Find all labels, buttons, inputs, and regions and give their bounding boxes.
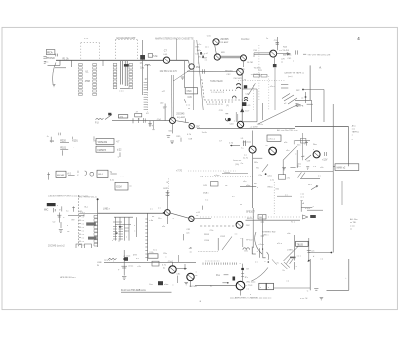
label tape head — [210, 80, 223, 83]
wire twin drop to Q9 b — [172, 75, 174, 117]
IC U2 pin field — [113, 61, 132, 92]
svg-text:TAPE/AM: TAPE/AM — [97, 141, 107, 144]
note dashed header right — [303, 54, 331, 56]
svg-text:. . .: . . . — [121, 176, 124, 178]
wire stubs y84 y88 — [281, 84, 288, 88]
node under Q12 — [184, 229, 193, 254]
svg-text:K101: K101 — [72, 140, 78, 142]
svg-text:x7x x.x: x7x x.x — [268, 139, 276, 141]
label Q5 IF — [241, 61, 253, 71]
IC U1 pin field — [79, 60, 103, 95]
svg-text:x x x x x x x x x x: x x x x x x x x x x — [205, 260, 219, 262]
svg-text:x: x — [352, 139, 353, 141]
transistor Q12 — [189, 216, 194, 221]
svg-text:(7G): (7G) — [235, 164, 239, 166]
label C7b — [219, 141, 223, 143]
node cluster above comb — [150, 208, 165, 220]
wire ground return curve — [53, 63, 56, 85]
svg-text:x: x — [134, 231, 135, 233]
wire vertical x262 low — [261, 215, 264, 250]
label Q4 — [202, 52, 226, 59]
svg-text:Lxxxx xx: Lxxxx xx — [233, 160, 242, 162]
oscillator coil T1 box — [185, 88, 197, 94]
wire x302 column — [298, 133, 307, 166]
svg-text:xx x: xx x — [308, 184, 312, 186]
svg-text:T6 455: T6 455 — [282, 50, 289, 52]
coil T9 box — [265, 135, 281, 147]
switch S3 wiring — [282, 89, 324, 122]
svg-text:+12V: +12V — [322, 159, 328, 161]
transistor Q7 — [237, 69, 244, 76]
resistor bias vertical — [241, 271, 248, 281]
label C9x pair — [163, 253, 168, 258]
node MIC jack — [47, 203, 59, 207]
note L row — [233, 160, 242, 166]
wire stub down x153 — [152, 121, 154, 130]
node left marks — [200, 176, 204, 178]
node mid labels — [128, 261, 167, 268]
svg-text:Rx: Rx — [198, 50, 200, 52]
node C45 cluster — [203, 182, 228, 188]
wire Q3 to Q4 — [215, 45, 217, 55]
note footnotes — [350, 218, 358, 231]
connector comb J4 — [145, 213, 155, 261]
wire twin-lead arrow 1 — [221, 56, 240, 58]
wire x283 — [282, 160, 284, 175]
ground Q9 — [170, 141, 174, 144]
svg-text:x x: x x — [82, 231, 84, 233]
wire diag reg — [284, 247, 301, 262]
svg-text:R/P: R/P — [296, 90, 300, 92]
transistor Q19 — [187, 273, 194, 280]
diode D2 — [241, 109, 251, 113]
svg-text:x2x: x2x — [162, 226, 165, 228]
svg-text:2SA x: 2SA x — [203, 192, 209, 195]
bias chain Q11 — [163, 188, 169, 210]
resistor R2k7 — [229, 143, 240, 147]
wire twin drop to Q9 a — [171, 75, 173, 117]
node line-in 2 — [97, 258, 116, 267]
svg-text:HF-1: HF-1 — [98, 174, 104, 176]
wire gnd left leg — [307, 259, 310, 290]
wire x124 riser — [123, 250, 125, 276]
capacitor C53 — [148, 121, 153, 128]
label MIC2 — [44, 209, 49, 211]
svg-text:A.: A. — [319, 66, 322, 70]
svg-text:CW: CW — [307, 160, 311, 162]
svg-text:R101: R101 — [60, 147, 66, 149]
svg-text:x x: x x — [82, 224, 84, 226]
svg-text:xx x: xx x — [205, 47, 209, 49]
svg-text:AM OSC: AM OSC — [283, 53, 292, 56]
svg-text:HPB RD NJ/xx x: HPB RD NJ/xx x — [60, 277, 77, 279]
svg-text:1x: 1x — [266, 38, 268, 40]
svg-text:R220: R220 — [60, 140, 66, 142]
svg-text:ECM: ECM — [116, 186, 121, 188]
label Q10 — [196, 127, 201, 129]
svg-text:1 2 3 4 5 6 7 8: 1 2 3 4 5 6 7 8 — [211, 92, 225, 94]
svg-text:REC/PB: REC/PB — [295, 106, 303, 108]
svg-text:JPx: JPx — [245, 277, 248, 279]
label Q15 — [241, 141, 252, 164]
node marks right of spine — [244, 80, 251, 96]
ceramic filter SFE — [232, 196, 256, 250]
wire rail y173 — [222, 172, 248, 174]
wire twin-lead arrow 2 — [253, 50, 271, 57]
label line x — [103, 209, 111, 211]
svg-text:+B: +B — [189, 247, 192, 250]
svg-text:xxx: xxx — [352, 129, 355, 131]
svg-text:dTB: dTB — [133, 255, 137, 257]
capacitor C1 — [56, 54, 58, 57]
capacitor C output — [307, 238, 311, 262]
label under T1 — [184, 97, 192, 103]
note mic header — [0, 0, 1, 1]
transistor Q8 — [237, 121, 243, 127]
wire Q11 to Q12 — [171, 213, 189, 220]
capacitor C7 label — [163, 51, 168, 56]
label read — [240, 185, 274, 189]
label x1x — [243, 181, 257, 185]
varicap cluster — [225, 118, 235, 123]
node input jack ticks — [43, 56, 46, 63]
label 150 — [275, 188, 292, 196]
node under Q10 — [187, 134, 193, 140]
wire Q13 right rail — [246, 218, 301, 220]
svg-text:EQ AMP: EQ AMP — [177, 116, 186, 119]
svg-text:C/R: C/R — [186, 229, 190, 231]
label TP107 — [240, 238, 254, 242]
label Q18 — [163, 261, 174, 269]
svg-text:SFE10.7: SFE10.7 — [246, 211, 256, 213]
svg-text:x: x — [112, 240, 113, 242]
svg-text:x: x — [165, 256, 166, 258]
row y282 marks — [149, 281, 174, 286]
svg-text:TRIM: TRIM — [202, 57, 207, 59]
svg-text:OSC: OSC — [187, 91, 192, 93]
svg-text:x x: x x — [82, 238, 84, 240]
transistor Q16 — [269, 147, 277, 155]
label Q17 — [246, 281, 256, 290]
resistor R1 label — [63, 59, 70, 61]
svg-text:x xx x: x xx x — [305, 208, 310, 210]
node Tk cluster — [93, 136, 96, 142]
wire dotted tape line — [238, 80, 285, 82]
note transistor type — [48, 245, 65, 247]
label C31 — [219, 110, 228, 114]
node line-in squiggle — [95, 118, 103, 124]
svg-text:C1x2: C1x2 — [168, 261, 174, 263]
coil L5 — [241, 138, 246, 146]
wire x294 — [287, 233, 294, 261]
resistor R90 — [148, 252, 158, 258]
node between Q18 Q19 — [176, 274, 181, 283]
wire output bus left — [195, 285, 236, 287]
wire below Q17 — [241, 290, 253, 296]
svg-text:Lxxxxx: Lxxxxx — [224, 172, 230, 174]
node gnd junction — [307, 289, 319, 293]
node aux input row — [47, 170, 124, 181]
wire Q15 emitter — [253, 158, 263, 164]
svg-text:x: x — [134, 225, 135, 227]
transistor Q14 AGC block — [295, 141, 333, 179]
label 4v — [47, 136, 50, 138]
potentiometer VR3 — [308, 184, 318, 190]
svg-text:x x: x x — [82, 227, 84, 229]
node d label — [313, 256, 315, 258]
svg-text:RG: RG — [259, 217, 262, 219]
wire x301 stub — [301, 200, 305, 212]
wire gnd bottom — [327, 289, 349, 291]
svg-text:ACx: ACx — [352, 125, 356, 128]
note right column list — [300, 193, 310, 210]
emitter chain Q9 — [167, 124, 173, 138]
svg-text:xx: xx — [281, 61, 283, 63]
wire rail top right — [309, 65, 311, 100]
wire output right — [274, 287, 311, 289]
resistor R42 row — [59, 133, 69, 143]
wire left channel bus — [104, 261, 196, 263]
svg-text:10.7M: 10.7M — [247, 62, 253, 64]
svg-text:xx: xx — [196, 215, 198, 217]
transistor Q5 — [241, 55, 247, 61]
svg-text:x: x — [126, 237, 127, 239]
svg-text:xx: xx — [125, 230, 127, 232]
label 7x — [291, 222, 296, 224]
svg-text:x xx . M: x xx . M — [300, 298, 308, 300]
svg-text:x x: x x — [205, 59, 208, 61]
wire Q6 right — [277, 53, 291, 56]
resistor R41 row — [50, 137, 55, 143]
transistor Q13 — [236, 221, 243, 228]
svg-text:x 1x: x 1x — [198, 44, 202, 46]
wire IF box right edge — [242, 89, 257, 122]
transistor Q17 power — [236, 281, 245, 290]
switch S1 box a — [96, 139, 114, 145]
resistor R32 — [135, 112, 144, 123]
wire stereo lamp curve — [255, 232, 262, 254]
svg-text:x10x: x10x — [126, 255, 130, 257]
wire vertical feed Q9 — [163, 104, 168, 121]
wire stub below bus — [48, 60, 67, 68]
resistor R206 — [218, 237, 232, 251]
svg-text:FM/MPX: FM/MPX — [97, 150, 106, 152]
svg-text:C202: C202 — [220, 236, 226, 238]
svg-text:2SC945: 2SC945 — [176, 114, 185, 116]
note adjustment — [48, 195, 89, 198]
svg-text:2SC945 (xxx) x2: 2SC945 (xxx) x2 — [48, 245, 65, 247]
connector comb J2 — [144, 83, 148, 110]
svg-text:+x 1/2W: +x 1/2W — [250, 127, 258, 129]
svg-text:x xxx: x xxx — [350, 225, 355, 227]
svg-text:Cx x: Cx x — [153, 249, 157, 251]
note bottom right text — [300, 297, 323, 300]
svg-text:x7xxx: x7xxx — [258, 244, 264, 246]
svg-text:xx x: xx x — [300, 197, 304, 199]
node C9x marks — [244, 247, 259, 254]
wire feed above Q1 — [175, 39, 177, 61]
wire vertical drop — [71, 60, 73, 67]
node right of T9 — [284, 138, 306, 144]
svg-text:2SC 1xxx: 2SC 1xxx — [246, 281, 256, 283]
transistor Q3 — [213, 39, 219, 45]
transistor Q9 — [170, 118, 176, 124]
wire diag in IF box — [248, 83, 274, 95]
IC U4 pin grid — [112, 217, 136, 242]
svg-text:TAPE HEAD: TAPE HEAD — [210, 80, 223, 83]
coil T2 can — [236, 84, 240, 89]
wire coil column spine — [241, 75, 243, 122]
svg-text:x TO-3: x TO-3 — [246, 285, 253, 287]
wire Q6 emitter down — [273, 57, 277, 110]
node cluster right of Q6 — [282, 46, 297, 60]
wire dotted column x274 — [273, 182, 275, 215]
transistor Q10 — [189, 123, 194, 128]
wire diagonal to switch — [258, 104, 299, 124]
svg-text:ALL Rxx: ALL Rxx — [350, 218, 358, 221]
label Q9 — [176, 114, 186, 119]
svg-text:x x: x x — [82, 220, 84, 222]
label Q8 — [230, 124, 235, 126]
wire vertical x262 — [261, 103, 263, 120]
wire Q18 stub — [172, 262, 174, 266]
wire vertical x348 — [348, 127, 350, 167]
transistor Q1 — [163, 57, 169, 63]
wire gnd right leg — [346, 259, 349, 290]
svg-text:Cxx Dxx: Cxx Dxx — [241, 39, 250, 41]
note hpb text — [60, 277, 77, 279]
node bias cluster Q3 — [198, 44, 209, 64]
wire into Q7 — [187, 69, 237, 73]
node PHONO input label — [45, 50, 55, 64]
svg-text:1x2.0x: 1x2.0x — [257, 124, 264, 126]
note converter header — [241, 39, 250, 41]
label x.x — [244, 155, 248, 157]
svg-text:R205: R205 — [204, 234, 210, 236]
svg-text:xx TBL: xx TBL — [350, 222, 357, 224]
node small texts mid — [160, 91, 166, 110]
wire Q9 to Q10 — [176, 118, 189, 122]
label R35 — [176, 136, 181, 142]
resistor R43 row — [72, 137, 78, 143]
transistor Q11 — [164, 210, 170, 216]
svg-text:x2x: x2x — [311, 251, 314, 253]
resistor R31 — [118, 115, 127, 119]
wire Q18 to Q19 — [176, 264, 187, 270]
node pre-driver — [240, 263, 250, 271]
wire Q2 collector diag — [173, 70, 190, 82]
label Q19 — [195, 271, 198, 277]
mic module box ECM — [115, 182, 132, 190]
svg-text:LxR: LxR — [281, 58, 285, 60]
note underlined title — [121, 289, 172, 292]
svg-text:2SC: 2SC — [196, 127, 201, 129]
IC U3 dashed bottom — [204, 99, 243, 101]
wire base pair Q8 — [236, 112, 238, 122]
capacitor C87 — [118, 266, 127, 271]
ground phono — [53, 84, 56, 86]
label Poo — [216, 275, 228, 277]
svg-text:D-xO xxx TRI-DAB xxxx: D-xO xxx TRI-DAB xxxx — [121, 289, 147, 292]
transistor Q2 — [189, 64, 194, 69]
node bottom marks U4 — [104, 255, 140, 262]
capacitor C24 — [274, 37, 280, 50]
emitter Q11 down — [162, 216, 167, 229]
svg-text:MIX: MIX — [221, 52, 225, 54]
svg-text:C204: C204 — [204, 240, 210, 242]
svg-text:x x: x x — [82, 234, 84, 236]
svg-text:xx: xx — [118, 240, 120, 242]
ground below Q1 — [181, 77, 184, 79]
transistor Q15 — [249, 146, 256, 153]
label under Q13 — [204, 225, 250, 242]
IC U3 pin row 2 — [207, 101, 233, 106]
wire mic link — [67, 214, 84, 233]
label A — [319, 66, 322, 70]
wire dashed arrow left — [200, 225, 236, 227]
label xGx — [214, 175, 220, 177]
capacitor C5 block — [140, 55, 145, 70]
svg-text:x x x: x x x — [297, 256, 301, 258]
svg-text:TAPExx: TAPExx — [352, 131, 359, 134]
svg-text:x x x: x x x — [186, 105, 190, 107]
switch S2 ladder — [76, 195, 99, 248]
coil T3 — [244, 97, 248, 101]
svg-text:d.22: d.22 — [117, 149, 122, 151]
wire tuning gang vertical — [193, 40, 195, 110]
svg-text:x x x: x x x — [84, 38, 88, 40]
svg-text:4558: 4558 — [85, 81, 91, 83]
svg-text:P.U.: P.U. — [95, 123, 99, 125]
svg-text:2SC1675: 2SC1675 — [233, 78, 243, 80]
label stereo ind — [258, 231, 275, 246]
note right of rail — [352, 125, 359, 141]
bracket pair — [259, 248, 268, 260]
IC U2 label — [117, 37, 136, 40]
bus segment A — [197, 129, 295, 135]
resistor R12 — [148, 54, 158, 58]
capacitor C2 chain with ground — [53, 213, 66, 233]
wire preamp bus — [98, 212, 164, 214]
node mic input row — [53, 206, 88, 213]
svg-text:16 15 14 13 12 11: 16 15 14 13 12 11 — [207, 104, 224, 106]
svg-text:x: x — [293, 61, 294, 63]
wire long vertical feed — [142, 40, 149, 115]
svg-text:x x: x x — [232, 196, 234, 198]
note top faint text — [155, 37, 194, 40]
wire to main rail — [309, 251, 333, 254]
svg-text:R1 2k: R1 2k — [63, 59, 70, 61]
wire diag jack — [105, 113, 112, 120]
coil T8 curls — [226, 96, 236, 107]
node cluster right of Q2 — [195, 46, 201, 69]
node right marks — [272, 259, 298, 282]
svg-text:x xx: x xx — [300, 193, 304, 195]
wire x342 stub — [341, 181, 343, 205]
note cassette — [281, 58, 305, 78]
wire below Q19 — [190, 281, 192, 287]
label 2SA — [202, 192, 209, 210]
svg-text:x: x — [260, 287, 261, 289]
note main amp footer — [230, 297, 272, 300]
wire dotted rail 1 — [188, 170, 236, 172]
svg-text:(xxx): (xxx) — [288, 76, 293, 78]
svg-text:xx: xx — [188, 108, 190, 110]
wire dotted rail 2 — [205, 175, 253, 177]
wire main input bus — [56, 59, 163, 61]
svg-text:x: x — [198, 62, 199, 64]
label x10x — [126, 255, 137, 258]
